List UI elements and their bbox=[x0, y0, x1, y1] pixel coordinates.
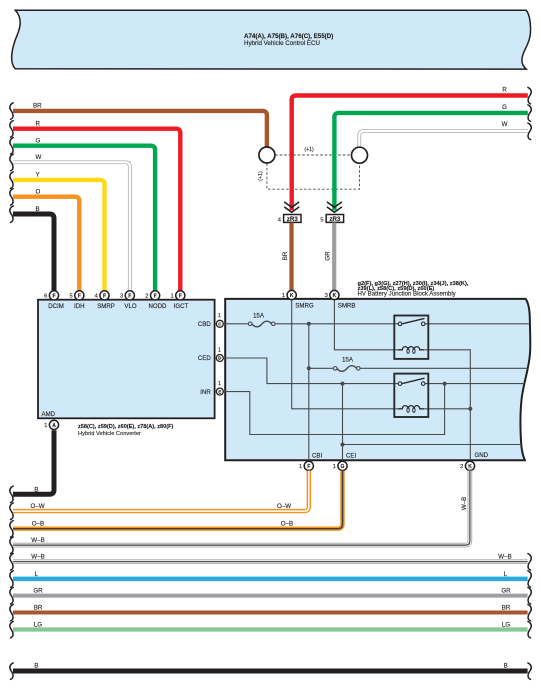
relay block 4 zR3 bbox=[284, 215, 301, 223]
svg-text:B: B bbox=[34, 487, 38, 494]
svg-text:1: 1 bbox=[170, 294, 173, 300]
svg-text:O–B: O–B bbox=[32, 521, 44, 528]
wire GR relay block to SMRB bbox=[332, 223, 336, 291]
svg-text:R: R bbox=[502, 87, 507, 94]
svg-text:SMRG: SMRG bbox=[295, 303, 314, 310]
relay 1 (SMRB) bbox=[394, 316, 428, 359]
pin 4 F SMRP bbox=[100, 291, 109, 300]
INNER WIRING bbox=[224, 300, 529, 462]
wire relay 1 coil to GND vertical bbox=[424, 350, 470, 462]
node circle left (+1) bbox=[259, 147, 275, 163]
pin 2 F NODD bbox=[151, 291, 160, 300]
pin 1 C CBD bbox=[216, 320, 223, 327]
svg-text:VLO: VLO bbox=[124, 303, 136, 310]
svg-text:5: 5 bbox=[320, 217, 323, 223]
junction CEI row bbox=[341, 443, 345, 447]
svg-text:1: 1 bbox=[299, 464, 302, 470]
svg-text:CBD: CBD bbox=[198, 321, 211, 328]
wire relay 2 coil to GND vertical bbox=[424, 408, 470, 410]
svg-text:zR3: zR3 bbox=[329, 216, 341, 223]
junction coil/GND bbox=[468, 407, 472, 411]
svg-text:CED: CED bbox=[198, 355, 211, 362]
pin 1 K SMRG bbox=[287, 290, 296, 299]
node (+1) dashed option links bbox=[267, 155, 360, 189]
svg-text:B: B bbox=[34, 662, 38, 669]
svg-text:Y: Y bbox=[36, 172, 40, 179]
svg-text:A74(A), A75(B), A76(C), E55(D): A74(A), A75(B), A76(C), E55(D) bbox=[244, 33, 333, 40]
svg-text:CEI: CEI bbox=[346, 452, 356, 459]
svg-text:HV Battery Junction Block Asse: HV Battery Junction Block Assembly bbox=[358, 291, 457, 298]
svg-text:z58(C), z59(D), z60(E), z78(A): z58(C), z59(D), z60(E), z78(A), z80(F) bbox=[78, 424, 174, 430]
svg-text:O–W: O–W bbox=[277, 503, 291, 510]
wire W left to VLO bbox=[13, 162, 130, 291]
pin 1 A AMD bbox=[49, 420, 58, 429]
svg-text:O–B: O–B bbox=[281, 521, 293, 528]
svg-text:O: O bbox=[36, 189, 41, 196]
svg-text:DCIM: DCIM bbox=[48, 303, 64, 310]
svg-text:IGCT: IGCT bbox=[174, 303, 189, 310]
svg-text:IDH: IDH bbox=[74, 303, 85, 310]
svg-text:B: B bbox=[36, 206, 40, 213]
wire INR jog to relay 2 output bbox=[224, 384, 445, 435]
svg-text:F: F bbox=[52, 293, 55, 299]
svg-text:15A: 15A bbox=[342, 357, 354, 364]
svg-text:BR: BR bbox=[502, 605, 511, 612]
fuse 15A no.2 bbox=[337, 366, 357, 372]
svg-text:(+1): (+1) bbox=[258, 171, 264, 181]
svg-text:F: F bbox=[78, 293, 81, 299]
pin 1 F CBI bbox=[304, 461, 313, 470]
pin 6 F DCIM bbox=[49, 291, 58, 300]
junction CED/CEI bbox=[341, 382, 345, 386]
pin 3 K SMRB bbox=[330, 290, 339, 299]
HV Battery Junction Block Assembly box bbox=[225, 299, 530, 460]
svg-text:W–B: W–B bbox=[498, 554, 511, 561]
arrow into relay block 5 bbox=[327, 202, 342, 212]
wire W-B from GND pin bbox=[13, 471, 470, 545]
svg-text:K: K bbox=[290, 293, 294, 299]
svg-text:CBI: CBI bbox=[312, 452, 322, 459]
svg-text:NODD: NODD bbox=[149, 303, 168, 310]
wire G right to relay block 5 bbox=[334, 113, 527, 210]
svg-text:BR: BR bbox=[282, 251, 289, 260]
wire-break curls right bbox=[528, 87, 531, 679]
wire R left to IGCT bbox=[13, 129, 180, 291]
wire W-B across bbox=[13, 559, 528, 564]
svg-text:3: 3 bbox=[325, 293, 328, 299]
svg-text:GND: GND bbox=[475, 452, 489, 459]
svg-text:6: 6 bbox=[44, 294, 47, 300]
svg-text:SMRB: SMRB bbox=[338, 303, 356, 310]
pin 3 F VLO bbox=[125, 291, 134, 300]
svg-text:G: G bbox=[36, 138, 41, 145]
svg-text:BR: BR bbox=[33, 103, 42, 110]
relay block 5 zR3 bbox=[326, 215, 343, 223]
svg-text:A: A bbox=[52, 423, 56, 429]
svg-text:BR: BR bbox=[34, 605, 43, 612]
svg-text:Hybrid Vehicle Control ECU: Hybrid Vehicle Control ECU bbox=[244, 40, 320, 47]
svg-text:O–W: O–W bbox=[30, 503, 44, 510]
wire CEI row to right edge bbox=[343, 444, 522, 446]
svg-text:1: 1 bbox=[218, 381, 221, 387]
pin 1 G CEI bbox=[338, 461, 347, 470]
wire R right to relay block 4 bbox=[292, 96, 528, 211]
wire BR left to node circle bbox=[13, 111, 267, 148]
svg-text:R: R bbox=[36, 121, 41, 128]
svg-text:4: 4 bbox=[95, 294, 99, 300]
wire O-B from CEI pin bbox=[13, 471, 343, 529]
junction CBI/fuse 2 bbox=[307, 366, 311, 370]
wire CBD row to fuse bbox=[224, 323, 248, 325]
svg-text:5: 5 bbox=[69, 294, 72, 300]
svg-text:GR: GR bbox=[33, 588, 43, 595]
svg-text:G: G bbox=[341, 464, 345, 470]
svg-text:LG: LG bbox=[34, 622, 42, 629]
Hybrid Vehicle Converter box bbox=[38, 300, 215, 419]
svg-text:L: L bbox=[35, 571, 39, 578]
junction INR/relay 2 output bbox=[443, 382, 447, 386]
ECU banner: Hybrid Vehicle Control ECU bbox=[12, 10, 531, 69]
svg-text:1: 1 bbox=[218, 347, 221, 353]
svg-text:GR: GR bbox=[324, 251, 331, 261]
fuse 15A no.1 bbox=[252, 321, 272, 327]
wire G left to NODD bbox=[13, 146, 155, 291]
wire fuse to relay 1 contact bbox=[275, 323, 398, 325]
svg-text:E: E bbox=[218, 389, 221, 394]
svg-text:2: 2 bbox=[460, 464, 463, 470]
wire W right to node circle bbox=[359, 131, 528, 148]
pin 5 F IDH bbox=[75, 291, 84, 300]
svg-text:W–B: W–B bbox=[31, 537, 44, 544]
pin 2 K GND bbox=[465, 461, 474, 470]
svg-text:4: 4 bbox=[278, 217, 282, 223]
svg-text:GR: GR bbox=[501, 588, 511, 595]
svg-text:K: K bbox=[333, 293, 337, 299]
svg-text:SMRP: SMRP bbox=[97, 303, 115, 310]
wire GR across bbox=[13, 594, 528, 598]
svg-text:B: B bbox=[504, 662, 508, 669]
svg-text:2: 2 bbox=[145, 294, 148, 300]
pin 1 F IGCT bbox=[176, 291, 185, 300]
svg-text:W: W bbox=[36, 154, 42, 161]
svg-text:F: F bbox=[103, 293, 106, 299]
svg-text:1: 1 bbox=[44, 423, 47, 429]
svg-text:F: F bbox=[154, 293, 157, 299]
wire BR relay block to SMRG bbox=[289, 223, 293, 291]
wire fuse 2 to right edge bbox=[360, 367, 528, 369]
svg-text:W–B: W–B bbox=[31, 554, 44, 561]
svg-text:AMD: AMD bbox=[42, 411, 56, 418]
svg-text:W–B: W–B bbox=[461, 497, 468, 510]
node circle right (+1) bbox=[352, 147, 368, 163]
wire relay 2 contact out to right edge bbox=[425, 383, 525, 385]
svg-text:W: W bbox=[502, 121, 508, 128]
PINS bbox=[44, 290, 474, 470]
wire LG across bbox=[13, 627, 528, 631]
svg-text:1: 1 bbox=[282, 293, 285, 299]
svg-text:3: 3 bbox=[120, 294, 123, 300]
wire B left to DCIM bbox=[13, 214, 54, 291]
wire SMRB vertical to relay 1 coil bbox=[334, 300, 398, 350]
arrow into relay block 4 bbox=[284, 202, 299, 212]
wire CED jog to relay 2 contact bbox=[224, 358, 398, 384]
svg-text:F: F bbox=[128, 293, 131, 299]
svg-text:Hybrid Vehicle Converter: Hybrid Vehicle Converter bbox=[78, 431, 141, 437]
wire relay 1 contact out to right edge bbox=[425, 323, 529, 325]
svg-text:(+1): (+1) bbox=[304, 147, 314, 153]
svg-text:zR3: zR3 bbox=[287, 216, 299, 223]
svg-text:F: F bbox=[179, 293, 182, 299]
svg-text:F: F bbox=[307, 464, 310, 470]
junction CBD/CBI bbox=[307, 322, 311, 326]
wire O left to IDH bbox=[13, 197, 79, 291]
wire BR across bbox=[13, 611, 528, 615]
wire L across bbox=[13, 577, 528, 582]
wire B across bottom bbox=[13, 669, 528, 674]
wire CEI vertical bbox=[342, 384, 344, 462]
wire CBI vertical bbox=[308, 324, 310, 462]
svg-text:15A: 15A bbox=[253, 312, 265, 319]
svg-text:LG: LG bbox=[502, 622, 510, 629]
wire fuse 2 row bbox=[309, 367, 334, 369]
svg-text:1: 1 bbox=[333, 464, 336, 470]
wire SMRG vertical to relay 2 coil bbox=[292, 300, 398, 409]
svg-text:INR: INR bbox=[200, 389, 211, 396]
svg-text:L: L bbox=[504, 571, 508, 578]
svg-text:K: K bbox=[468, 464, 472, 470]
wire Y left to SMRP bbox=[13, 180, 105, 291]
wire O-W from CBI pin bbox=[13, 471, 309, 511]
wire B from AMD pin bbox=[13, 430, 54, 494]
pin 1 D CED bbox=[216, 355, 223, 362]
svg-text:G: G bbox=[502, 104, 507, 111]
svg-text:1: 1 bbox=[218, 313, 221, 319]
relay 2 (SMRG) bbox=[394, 374, 428, 417]
pin 1 E INR bbox=[216, 388, 223, 395]
wire-break curls left bbox=[10, 103, 13, 680]
